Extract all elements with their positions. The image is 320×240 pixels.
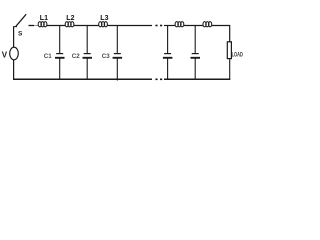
inductor L5 (203, 22, 212, 27)
switch S (13, 14, 34, 26)
load resistor (227, 42, 231, 80)
inductor L4 (175, 22, 184, 27)
wire (164, 25, 175, 27)
svg-text:C3: C3 (102, 53, 110, 60)
svg-text:C1: C1 (44, 53, 52, 60)
label L1 (40, 15, 48, 22)
continuation dashes bottom (155, 78, 162, 80)
inductor L3 (99, 22, 108, 27)
wire (184, 25, 203, 27)
capacitor C5 (191, 26, 201, 80)
wire (107, 25, 152, 27)
label L2 (66, 15, 74, 22)
inductor L1 (38, 22, 47, 27)
svg-text:S: S (18, 30, 23, 37)
capacitor C2 (83, 26, 93, 80)
bottom rail wire right (164, 78, 230, 80)
label V (2, 50, 8, 59)
wire (212, 26, 230, 43)
voltage source V (10, 47, 19, 60)
continuation dashes top (155, 25, 162, 27)
wire (47, 25, 65, 27)
capacitor C3 (113, 26, 123, 81)
label C3 (102, 53, 110, 60)
svg-text:LOAD: LOAD (232, 52, 244, 58)
wire (13, 27, 15, 48)
inductor L2 (65, 22, 74, 27)
capacitor C4 (163, 26, 173, 80)
label C1 (44, 53, 52, 60)
label L3 (100, 15, 108, 22)
svg-text:L1: L1 (40, 15, 48, 22)
wire (34, 25, 38, 27)
label S (18, 30, 23, 37)
capacitor C1 (55, 26, 65, 80)
wire (74, 25, 99, 27)
svg-text:L3: L3 (100, 15, 108, 22)
label LOAD (232, 52, 244, 58)
svg-text:L2: L2 (66, 15, 74, 22)
svg-text:V: V (2, 50, 8, 59)
svg-text:C2: C2 (72, 53, 80, 60)
wire (13, 60, 15, 80)
label C2 (72, 53, 80, 60)
bottom rail wire (13, 78, 152, 80)
